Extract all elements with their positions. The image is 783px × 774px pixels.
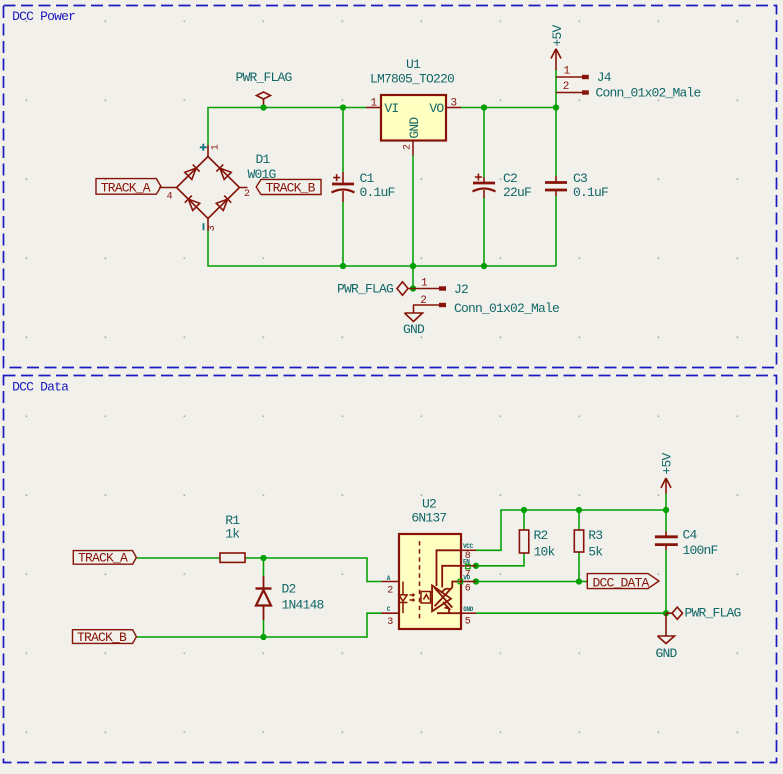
wire J4 riser xyxy=(555,70,557,93)
svg-text:Conn_01x02_Male: Conn_01x02_Male xyxy=(596,86,701,101)
svg-text:U2: U2 xyxy=(422,497,436,512)
junction at C1 top xyxy=(340,104,346,110)
ground symbol at J2 pin2 xyxy=(405,305,423,322)
diode D2 1N4148 xyxy=(256,576,272,620)
svg-text:TRACK_B: TRACK_B xyxy=(77,630,127,645)
svg-text:1: 1 xyxy=(421,278,428,290)
U2 internal schmitt input xyxy=(421,592,431,604)
svg-text:VI: VI xyxy=(384,101,398,116)
U1 pin 3 xyxy=(446,107,461,109)
junction at C2 bottom xyxy=(481,263,487,269)
svg-text:1: 1 xyxy=(211,144,222,150)
svg-text:0.1uF: 0.1uF xyxy=(360,185,395,200)
global label DCC_DATA xyxy=(587,574,659,589)
svg-text:1N4148: 1N4148 xyxy=(282,598,324,613)
ground symbol data xyxy=(658,613,675,643)
svg-text:VO: VO xyxy=(429,101,444,116)
junction at PWR_FLAG top xyxy=(260,104,266,110)
svg-text:6: 6 xyxy=(465,583,471,594)
svg-text:DCC_DATA: DCC_DATA xyxy=(593,576,650,591)
wire U1 GND down to J2 xyxy=(412,156,414,289)
U2 internal gate triangle and transistor xyxy=(432,585,452,613)
svg-text:22uF: 22uF xyxy=(503,185,531,200)
svg-text:D2: D2 xyxy=(282,582,296,597)
svg-text:+5V: +5V xyxy=(660,452,675,474)
junction at J2 pin1 xyxy=(410,285,416,291)
wire R2 top xyxy=(523,510,525,530)
power flag PWR_FLAG data xyxy=(666,607,683,619)
wire bridge bottom to bottom bus xyxy=(208,231,556,267)
connector J4 xyxy=(556,76,582,78)
optocoupler U2 6N137 xyxy=(399,534,461,629)
svg-text:R2: R2 xyxy=(534,528,548,543)
global label TRACK_A xyxy=(96,179,161,195)
svg-text:C3: C3 xyxy=(573,171,587,186)
svg-text:D1: D1 xyxy=(256,152,271,167)
wire top bus from bridge to U1 VI xyxy=(208,108,366,146)
wire C4 bottom xyxy=(665,550,667,613)
svg-text:VO: VO xyxy=(463,575,470,582)
svg-text:+5V: +5V xyxy=(550,24,565,46)
wire C4 top xyxy=(665,510,667,532)
sheet frame DCC Data xyxy=(4,376,777,763)
svg-text:C1: C1 xyxy=(360,171,375,186)
svg-text:PWR_FLAG: PWR_FLAG xyxy=(337,282,393,297)
regulator U1 LM7805 xyxy=(381,95,446,141)
wire GND row pin5 xyxy=(476,612,666,614)
svg-text:GND: GND xyxy=(463,606,474,613)
U2 internal wires xyxy=(437,550,462,613)
svg-text:2: 2 xyxy=(387,586,393,597)
svg-text:2: 2 xyxy=(420,295,427,307)
wire VO to DCC_DATA xyxy=(476,581,587,583)
connector J2 xyxy=(413,288,439,290)
svg-text:3: 3 xyxy=(451,98,458,110)
svg-text:6N137: 6N137 xyxy=(411,511,446,526)
svg-text:GND: GND xyxy=(407,117,422,139)
junction at C2 top xyxy=(481,104,487,110)
svg-text:J2: J2 xyxy=(454,282,468,297)
junction +5V rail xyxy=(663,507,669,513)
wire TRACK_A row xyxy=(137,557,220,559)
junction R3 top rail xyxy=(576,507,582,513)
global label TRACK_B xyxy=(256,179,321,194)
junction VO pin xyxy=(473,578,479,584)
svg-text:1: 1 xyxy=(371,98,378,110)
svg-text:1: 1 xyxy=(564,66,571,78)
wire R3 top xyxy=(578,510,580,530)
capacitor C4 xyxy=(655,532,678,551)
svg-text:GND: GND xyxy=(656,646,678,661)
capacitor C1 xyxy=(332,172,355,202)
svg-text:1k: 1k xyxy=(225,527,240,542)
svg-text:TRACK_B: TRACK_B xyxy=(266,181,316,196)
bridge rectifier D1 xyxy=(159,145,248,231)
U2 pin 3 C xyxy=(382,612,400,614)
junction D2/TRACK_B xyxy=(260,634,266,640)
wire TRACK_B row xyxy=(137,613,382,637)
svg-text:10k: 10k xyxy=(534,544,556,559)
svg-text:Conn_01x02_Male: Conn_01x02_Male xyxy=(454,301,559,316)
wire C3 vertical xyxy=(555,108,557,177)
svg-text:PWR_FLAG: PWR_FLAG xyxy=(685,606,741,621)
junction at U1 GND bottom xyxy=(410,263,416,269)
junction R1/D2 xyxy=(260,555,266,561)
wire C2 vertical xyxy=(483,108,485,178)
svg-text:VCC: VCC xyxy=(463,543,474,550)
U1 pin 1 xyxy=(366,107,381,109)
svg-text:U1: U1 xyxy=(406,57,421,72)
svg-text:0.1uF: 0.1uF xyxy=(573,185,608,200)
junction GND/C4 xyxy=(663,610,669,616)
svg-text:C4: C4 xyxy=(683,527,698,542)
power flag PWR_FLAG top xyxy=(257,92,271,108)
U2 pin 6 VO xyxy=(461,581,476,583)
U2 internal dashed divider xyxy=(419,541,421,622)
junction at J4/C3 xyxy=(553,104,559,110)
resistor R1 xyxy=(220,553,245,562)
U2 pin 2 A xyxy=(382,581,400,583)
svg-text:TRACK_A: TRACK_A xyxy=(101,181,151,196)
power symbol +5V at J4 xyxy=(551,49,561,70)
svg-text:5k: 5k xyxy=(588,544,603,559)
svg-text:TRACK_A: TRACK_A xyxy=(78,551,128,566)
svg-text:2: 2 xyxy=(244,189,250,200)
global label TRACK_A data xyxy=(73,551,136,565)
junction R3/VO xyxy=(576,578,582,584)
svg-text:DCC Power: DCC Power xyxy=(12,9,75,24)
wire R3 bottom xyxy=(578,552,580,582)
junction R2 top rail xyxy=(521,507,527,513)
svg-text:LM7805_TO220: LM7805_TO220 xyxy=(370,72,454,87)
capacitor C3 xyxy=(545,176,567,196)
wire C1 vertical xyxy=(342,108,344,173)
svg-text:5: 5 xyxy=(465,616,471,627)
svg-text:3: 3 xyxy=(207,225,218,231)
U2 EN no-connect square xyxy=(466,564,470,568)
junction at C1 bottom xyxy=(340,263,346,269)
svg-text:J4: J4 xyxy=(597,70,612,85)
U2 pin 8 VCC xyxy=(461,549,476,551)
svg-text:C2: C2 xyxy=(503,171,517,186)
wire R2 bottom to EN xyxy=(476,553,524,566)
junction EN pin xyxy=(473,563,479,569)
svg-text:PWR_FLAG: PWR_FLAG xyxy=(236,70,292,85)
svg-text:3: 3 xyxy=(387,617,393,628)
svg-text:4: 4 xyxy=(167,192,173,203)
global label TRACK_B data xyxy=(73,630,137,644)
svg-text:R3: R3 xyxy=(588,528,602,543)
svg-text:2: 2 xyxy=(403,144,414,150)
power symbol +5V data xyxy=(661,478,671,494)
U2 pin 7 EN xyxy=(461,565,476,567)
resistor R2 xyxy=(519,530,528,553)
bridge plus mark xyxy=(200,144,207,151)
bridge minus mark xyxy=(203,223,205,230)
wire VO bus U1 pin3 to J4/C3 corner xyxy=(461,107,556,109)
power flag PWR_FLAG at J2 xyxy=(397,282,413,295)
svg-text:100nF: 100nF xyxy=(683,543,718,558)
svg-text:DCC Data: DCC Data xyxy=(12,379,69,394)
U2 VO no-connect square xyxy=(458,579,462,583)
U2 pin 5 GND xyxy=(461,612,476,614)
U2 internal LED xyxy=(399,582,415,614)
U1 pin 2 xyxy=(412,141,414,156)
wire top rail +5V xyxy=(476,510,666,550)
resistor R3 xyxy=(574,530,583,552)
wire D2 branch xyxy=(263,558,265,576)
svg-text:GND: GND xyxy=(403,322,425,337)
sheet frame DCC Power xyxy=(4,6,777,368)
wire +5V stem xyxy=(665,494,667,510)
capacitor C2 xyxy=(473,174,496,199)
svg-text:2: 2 xyxy=(563,81,570,93)
